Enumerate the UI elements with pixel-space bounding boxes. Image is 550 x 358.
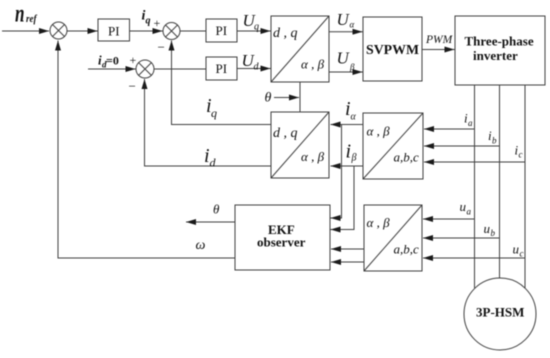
svg-text:θ: θ xyxy=(213,202,220,217)
svg-text:i: i xyxy=(346,141,352,163)
svg-text:α , β: α , β xyxy=(301,57,325,72)
svg-text:a,b,c: a,b,c xyxy=(394,150,420,165)
svg-text:d: d xyxy=(254,62,260,73)
svg-text:q: q xyxy=(146,16,151,27)
svg-text:PI: PI xyxy=(216,23,228,38)
svg-text:α: α xyxy=(350,20,355,30)
svg-text:θ: θ xyxy=(265,91,272,106)
svg-text:β: β xyxy=(351,153,357,164)
svg-text:U: U xyxy=(337,10,351,29)
svg-text:−: − xyxy=(129,78,136,93)
svg-text:+: + xyxy=(130,53,137,67)
svg-text:ref: ref xyxy=(26,14,38,25)
svg-text:b: b xyxy=(492,136,497,146)
svg-text:d: d xyxy=(210,156,217,170)
svg-text:+: + xyxy=(154,16,161,30)
svg-text:PI: PI xyxy=(108,24,120,39)
svg-text:ω: ω xyxy=(196,238,206,253)
svg-text:β: β xyxy=(349,62,355,72)
svg-text:q: q xyxy=(211,106,217,120)
svg-text:a: a xyxy=(467,207,472,217)
svg-text:PWM: PWM xyxy=(425,34,454,46)
svg-text:u: u xyxy=(460,199,467,214)
svg-text:U: U xyxy=(337,49,351,68)
svg-text:α , β: α , β xyxy=(301,149,325,164)
svg-text:a: a xyxy=(468,118,473,128)
svg-text:α , β: α , β xyxy=(367,215,391,230)
svg-text:3P-HSM: 3P-HSM xyxy=(476,305,524,320)
svg-text:u: u xyxy=(484,221,491,236)
svg-text:b: b xyxy=(491,228,496,238)
svg-text:u: u xyxy=(513,242,520,257)
svg-text:SVPWM: SVPWM xyxy=(366,43,419,58)
svg-text:α , β: α , β xyxy=(367,124,391,139)
svg-text:inverter: inverter xyxy=(473,48,518,63)
svg-text:c: c xyxy=(520,249,524,259)
svg-text:n: n xyxy=(15,1,25,28)
svg-text:α: α xyxy=(351,112,357,123)
svg-text:d , q: d , q xyxy=(273,26,298,41)
svg-text:PI: PI xyxy=(216,61,228,76)
svg-text:q: q xyxy=(254,22,259,33)
svg-text:c: c xyxy=(519,150,523,160)
svg-text:=0: =0 xyxy=(106,54,119,68)
svg-text:d , q: d , q xyxy=(273,126,298,141)
svg-text:observer: observer xyxy=(257,235,306,250)
svg-text:−: − xyxy=(158,40,165,55)
svg-text:Three-phase: Three-phase xyxy=(465,33,534,48)
svg-text:a,b,c: a,b,c xyxy=(394,242,420,257)
